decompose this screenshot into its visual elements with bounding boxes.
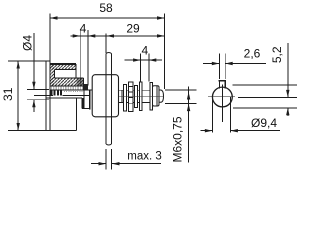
svg-text:4: 4: [141, 44, 148, 58]
svg-text:2,6: 2,6: [244, 47, 261, 61]
svg-text:M6x0,75: M6x0,75: [170, 116, 184, 162]
svg-text:Ø9,4: Ø9,4: [251, 116, 277, 130]
svg-text:Ø4: Ø4: [21, 35, 35, 51]
svg-text:4: 4: [80, 22, 87, 36]
svg-text:58: 58: [99, 1, 113, 15]
svg-text:max. 3: max. 3: [127, 151, 162, 163]
svg-text:31: 31: [1, 87, 15, 101]
svg-text:5,2: 5,2: [270, 46, 284, 63]
svg-text:29: 29: [126, 22, 140, 36]
